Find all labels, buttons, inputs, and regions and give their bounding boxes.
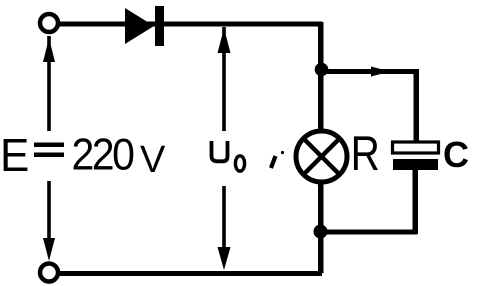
label R <box>351 126 380 180</box>
lamp R <box>296 131 347 182</box>
junction node B (bottom) <box>314 225 328 239</box>
comma separator <box>271 156 276 168</box>
svg-text:E: E <box>0 129 29 181</box>
label u0 <box>212 141 245 171</box>
svg-text:220: 220 <box>72 130 135 180</box>
wire right vertical (upper) <box>318 22 324 132</box>
terminal T1 (top-left) <box>40 14 58 32</box>
wire capacitor branch (bottom) <box>321 230 417 235</box>
ink speck <box>281 151 284 154</box>
voltage arrow E (bottom segment, head down) <box>43 181 55 261</box>
voltage arrow E (top segment, head up) <box>43 36 55 131</box>
svg-text:R: R <box>351 126 380 180</box>
voltage arrow u0 (bottom segment, head down) <box>218 186 231 270</box>
svg-text:V: V <box>140 139 166 181</box>
wire top <box>58 22 322 27</box>
voltage arrow u0 (top segment, head up) <box>218 27 231 131</box>
wire right vertical (lower) <box>318 181 324 273</box>
svg-text:C: C <box>443 134 469 175</box>
wire capacitor upper vertical <box>414 69 420 143</box>
wire capacitor lower vertical <box>413 170 419 234</box>
capacitor C plates <box>393 142 439 170</box>
current arrow into capacitor branch <box>371 67 390 77</box>
wire bottom <box>58 271 322 276</box>
terminal T2 (bottom-left) <box>40 264 58 282</box>
diode V1 <box>125 6 164 46</box>
wire to capacitor branch (top) <box>321 69 418 74</box>
junction node A (top) <box>315 63 329 77</box>
label E = 220V <box>0 129 166 181</box>
